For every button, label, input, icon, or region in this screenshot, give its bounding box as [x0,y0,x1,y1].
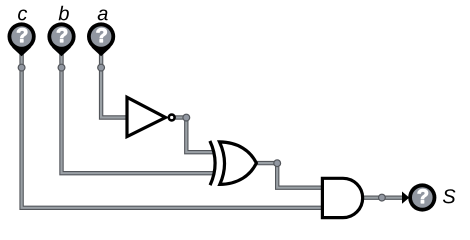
junction dot at NOT output [183,114,190,121]
AND gate body [322,178,362,217]
input badge b [47,22,75,56]
NOT gate triangle [127,97,166,136]
label b [59,6,69,21]
label S [443,189,456,203]
junction dot at XOR output [274,160,281,167]
arrowhead into output S [402,192,409,204]
label a [98,9,108,20]
junction dot below input c [18,64,25,71]
wire b vertical to XOR bottom input [62,50,215,173]
input badge a [87,22,115,56]
label c [18,9,27,20]
NOT gate bubble [169,115,175,121]
wire c vertical to AND bottom input [22,50,324,208]
output badge S [408,183,436,211]
wire XOR junction down to AND top input [277,163,324,188]
wire NOT output down to XOR top input [186,116,214,153]
junction dot at AND output [379,194,386,201]
wire a vertical to NOT input [101,50,129,118]
wire XOR output to junction [255,161,278,165]
XOR gate body [220,142,257,185]
wire AND output to S arrowhead [361,195,404,199]
junction dot below input b [58,64,65,71]
wire NOT bubble to junction [175,115,186,119]
XOR gate extra input arc [210,141,215,185]
input badge c [8,22,36,56]
junction dot below input a [98,64,105,71]
